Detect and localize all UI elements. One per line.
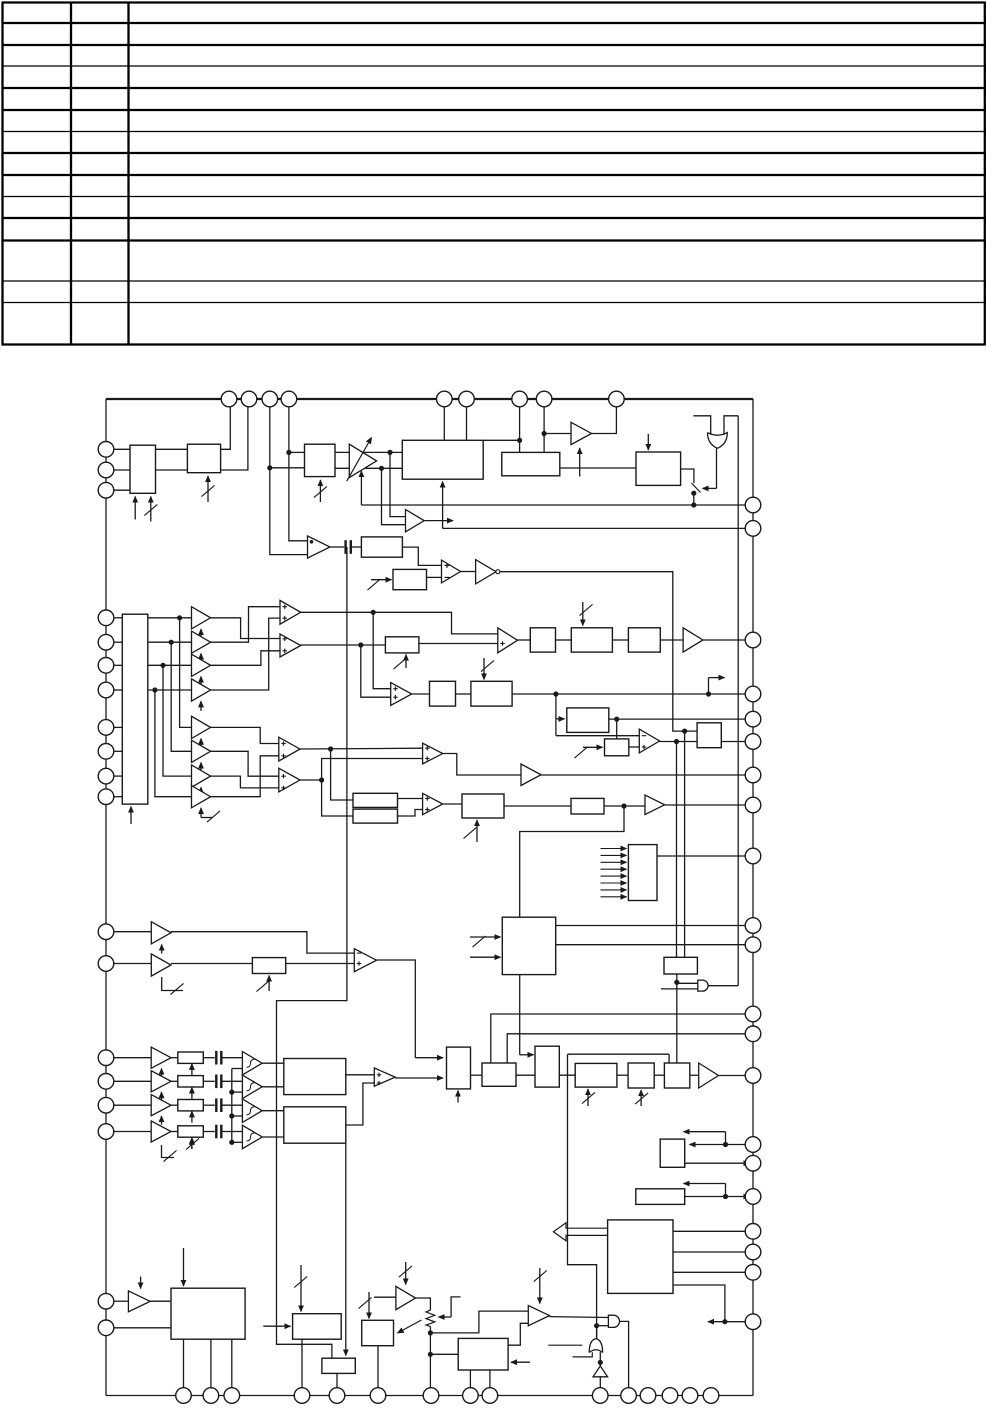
right pin 21 (745, 1314, 761, 1330)
wire cap to limiter L3 (223, 1104, 243, 1106)
junction on U4 output lower (379, 466, 384, 471)
minus mark K7 (642, 735, 647, 737)
block U12 (361, 537, 402, 557)
stub arrow above U29 (725, 1132, 727, 1145)
control arrow into M1 bottom (457, 1091, 459, 1103)
wire U3 to big block U5 upper (335, 451, 402, 453)
comparator K8 (423, 743, 443, 764)
buffer amp A7 (192, 765, 211, 787)
minus mark U14 (445, 576, 450, 578)
wire U28 out to K10 plus (286, 963, 355, 965)
plus marks S1 (377, 1074, 382, 1076)
wire left pin to buffer A12 (114, 931, 152, 933)
wire U8 to U10 (560, 467, 636, 469)
wire U1 to U2 upper (156, 448, 188, 450)
top pin 8 (536, 391, 552, 407)
wire U16 output ch4 to buffer (148, 689, 192, 691)
resistor block R1 (353, 793, 398, 807)
wire left pin to selector U16 input 4 (114, 689, 123, 691)
left pin 13 (98, 956, 114, 972)
block D1 (482, 1063, 516, 1086)
buffer A11 (645, 795, 665, 815)
power amp A15 (528, 1306, 549, 1326)
inverter U15 (476, 560, 496, 584)
summing amp S1 (374, 1068, 395, 1086)
stub wire G1 lower input (661, 988, 698, 990)
open bus arrow out of U31 (553, 1223, 607, 1241)
wire top pin 544 down into block U8 (543, 407, 545, 452)
gain arrow into U4 bottom (360, 471, 362, 505)
wire R2 out step to K9 lower (398, 810, 423, 817)
left pin 6 (98, 658, 114, 674)
table outer frame and grid (empty pin-function table) (2, 1, 986, 3)
right pin 14 (745, 1068, 761, 1084)
buffer A13 (151, 954, 171, 976)
potentiometer RV1 zigzag (426, 1310, 435, 1327)
wire RV1 bottom to bottom pin 431 (429, 1327, 431, 1396)
wire U31 out down to net1322 (673, 1285, 725, 1322)
wire A12 out step down to comparator K10 minus (171, 932, 354, 953)
wire A2 out step up to K1 upper input (211, 607, 280, 643)
wire bias vertical from cap node down (277, 547, 347, 1358)
wire R1 out to comparator K9 (398, 798, 423, 800)
left pin 19 (98, 1320, 114, 1336)
comparator U14 (442, 560, 461, 583)
plus mark K10 (357, 963, 362, 965)
U6 output stub arrow (424, 520, 453, 522)
capacitor C4 plate2 (220, 1098, 222, 1112)
wire F2 to F3 (612, 639, 628, 641)
clock stub left of G3 (548, 1344, 582, 1346)
comparator K6 (391, 683, 412, 706)
wire left pin 1301 to buffer A18 (114, 1300, 129, 1302)
wire top pin 289 vertical to comparator U7 upper input (289, 407, 308, 541)
wire left pin 3 to block U1 (114, 489, 130, 491)
wire D4 to D5 (654, 1074, 664, 1076)
control arrow into U1 bottom (134, 497, 136, 520)
wire U19 out to right pin 694 (512, 693, 753, 695)
system control block U31 (608, 1220, 673, 1294)
junction net1322 (722, 1319, 727, 1324)
wire ch2 tap down to buffer 6 (171, 642, 191, 751)
block U10 (636, 452, 681, 485)
wire bypass into D5 top (668, 1054, 670, 1063)
trim block T4 (178, 1126, 204, 1137)
left pin 8 (98, 720, 114, 736)
wire D1 top to right pin 1013 (491, 1014, 753, 1063)
decoder input arrow 7 (601, 889, 627, 891)
junction K2 out (358, 642, 363, 647)
decoder input arrow 5 (601, 875, 627, 877)
wire right pin 1144 arrow into U29 (690, 1144, 754, 1146)
wire left pin 1328 to U36 (114, 1327, 171, 1329)
right pin 15 (745, 1137, 761, 1153)
wire U29 out arrow to right pin 1163 (685, 1162, 750, 1164)
wire cap to limiter L2 (223, 1080, 243, 1082)
wire U10 output to switch SW1 (681, 469, 694, 483)
wire K3 out to comparator K8 (300, 747, 423, 750)
decoder input arrow 4 (601, 868, 627, 870)
wire K9 out to block U23 (443, 803, 462, 805)
capacitor C2 plate1 (215, 1051, 217, 1065)
wire D2 to D3 (559, 1074, 575, 1076)
reference bus vertical for limiters (231, 1069, 233, 1143)
capacitor C3 plate2 (220, 1075, 222, 1089)
wire K10 out down to mute block M1 input arrow (377, 960, 416, 1058)
OR gate U11 output arrow to SW1 (716, 448, 718, 488)
wire U36 to bottom pin 211 (210, 1339, 212, 1395)
wire U17 out to K5 lower input (419, 643, 498, 645)
RV1 wiper arrow (439, 1316, 452, 1318)
plus marks K1 (283, 606, 288, 608)
block D5 (664, 1063, 689, 1088)
wire U27 out to right pin 856 (657, 855, 753, 857)
junction K4 out (319, 777, 324, 782)
wire pot tap to A15 upper input (430, 1311, 528, 1333)
junction on net694 at x708 (706, 691, 711, 696)
trim block T2 (178, 1076, 204, 1087)
wire top pin 444 into U5 (443, 407, 445, 440)
wire x556 across to comparator K7 minus input (556, 735, 639, 737)
wire left pin ch4 to amp B4 (114, 1131, 151, 1133)
comparator K7 (639, 729, 659, 753)
reference amp A17 (396, 1286, 416, 1309)
wire bypass vertical to lower logic (568, 1054, 597, 1338)
junction pin544 net (542, 431, 547, 436)
wire U2 out to top pin 249 (221, 407, 248, 470)
limiter L1 (242, 1052, 262, 1075)
wire net505 from VCA gain node to right pin (361, 504, 753, 506)
comparator K10 (354, 949, 376, 972)
wire U33 bottom to pin 378 (377, 1346, 379, 1396)
gain arrow into B1 (161, 1069, 163, 1078)
left pin 7 (98, 682, 114, 698)
left pin 1 (98, 442, 114, 458)
decoder block U27 (628, 845, 657, 901)
wire U11 left input stub (693, 416, 710, 435)
wire K7 out to block U22 (660, 741, 698, 743)
wire L3 out (262, 1110, 284, 1112)
IC outline top edge (106, 398, 753, 400)
IC outline left edge (105, 399, 107, 1396)
buffer A18 (128, 1291, 150, 1312)
wire ch4 tap down to buffer 8 (155, 690, 192, 797)
limiter L4 (242, 1125, 262, 1148)
arrow with slash down into U34 (300, 1265, 302, 1312)
amp B3 (151, 1095, 171, 1116)
wire U18 to U19 (456, 693, 471, 695)
left pin 9 (98, 744, 114, 760)
right pin 16 (745, 1155, 761, 1171)
wire G3 right leg down to buffer A16 (599, 1352, 601, 1366)
wire left pin ch2 to amp B2 (114, 1080, 151, 1082)
plus mark U14 (445, 564, 450, 566)
wire left pin to buffer A13 (114, 963, 152, 965)
wire U26 out to right pin 925 (556, 925, 753, 927)
wire B3 to trim T3 (171, 1104, 178, 1106)
control arrow with slash into U3 bottom (319, 480, 321, 502)
wire K2 junction down to K6 lower input (361, 645, 391, 697)
junction RV1 net lower (428, 1352, 433, 1357)
gain arrow into T3 (191, 1111, 193, 1123)
wire T2 to cap C3 (203, 1080, 215, 1082)
bottom pin 2 (203, 1388, 219, 1404)
junction on pin289 net (286, 450, 291, 455)
left pin 3 (98, 482, 114, 498)
wire K5 to F1 (518, 639, 531, 641)
OR gate G3 facing up (589, 1339, 602, 1353)
buffer up-triangle A16 (593, 1366, 608, 1377)
junction K1 out (371, 610, 376, 615)
block U18 (430, 681, 456, 706)
left pin 12 (98, 924, 114, 940)
bottom pin 5 (329, 1388, 345, 1404)
right pin 18 (745, 1224, 761, 1240)
buffer amp A4 (192, 679, 211, 701)
oscillator block U36 (171, 1288, 245, 1339)
arrow into U34 left (263, 1325, 290, 1327)
wire left pin to selector U16 input 3 (114, 664, 123, 666)
wire net528 to right pin (443, 527, 753, 529)
left pin 15 (98, 1074, 114, 1090)
right pin 17 (745, 1189, 761, 1205)
arrow down into A18 (140, 1277, 142, 1289)
buffer A12 (151, 922, 171, 944)
wire A1 out step down to K2 upper input (211, 618, 280, 639)
bus tap to limiter L3 (232, 1115, 243, 1117)
bus tap to limiter L4 (232, 1141, 243, 1143)
junction below G3 (598, 1360, 603, 1365)
wire junction down along x556 (555, 694, 557, 736)
block U20 (567, 708, 609, 733)
wire U16 output ch3 to buffer (148, 664, 192, 666)
top pin 9 (609, 391, 625, 407)
gain arrow slash under D4 (640, 1090, 642, 1106)
wire U21 out to K7 plus input (629, 746, 640, 748)
capacitor C2 plate2 (220, 1051, 222, 1065)
bus tap to limiter L1 (232, 1068, 243, 1070)
gain arrow into A5 (200, 739, 202, 749)
bottom pin 9 (482, 1388, 498, 1404)
block U23 (462, 794, 504, 818)
wire L2 out (262, 1086, 284, 1088)
block U24 (571, 798, 604, 814)
bottom pin 7 (423, 1388, 439, 1404)
wire left pin to selector U16 input 7 (114, 775, 123, 777)
arrow with slash down into A17 (405, 1262, 407, 1285)
gain arrow slash under U23 (476, 820, 478, 842)
top pin 4 (281, 391, 297, 407)
wire X2 out step up to S1 (346, 1083, 375, 1125)
wire U35 bottom to pin 337 (336, 1373, 338, 1395)
gain arrow into A2 (200, 653, 202, 663)
wire A15 out to AND gate G2 (550, 1316, 609, 1319)
wire K7 junction down to block U25 top (676, 742, 678, 958)
left pin 11 (98, 789, 114, 805)
buffer U9 triangle (571, 422, 592, 444)
wire U25 bottom to AND gate G1 (676, 974, 678, 1063)
right pin 10 (745, 918, 761, 934)
wire U13 out to U14 minus input (427, 576, 442, 578)
stub arrow above U30 (725, 1184, 727, 1197)
arrow into U26 lower (470, 956, 501, 958)
wire U31 out to right pin 1252 (673, 1251, 753, 1253)
block U33 (362, 1320, 394, 1345)
junction G2 lower input net (594, 1323, 599, 1328)
plus marks K6 (393, 688, 398, 690)
wire junction down-left into big block U26 top (520, 806, 624, 917)
wire A9 out to right pin 640 (703, 639, 753, 641)
bottom pin 13 (662, 1388, 678, 1404)
wire K8 out step down to buffer A10 (443, 754, 521, 776)
right pin 2 (745, 521, 761, 537)
arrow with slash into U21 left (583, 746, 603, 748)
variable arrow across U4 (347, 438, 372, 482)
RV1 wiper stub up (451, 1297, 460, 1317)
right pin 12 (745, 1006, 761, 1022)
gain arrow slash-L under B4 (162, 1145, 175, 1158)
wire right pin 1322 with arrow left (708, 1321, 753, 1323)
wire top pin 519 down into block U8 (519, 407, 521, 452)
bottom pin 15 (703, 1388, 719, 1404)
wire A4 out long step up to K1 lower input (211, 618, 280, 690)
bottom pin 3 (224, 1388, 240, 1404)
resistor block R2 (353, 809, 398, 823)
junction on net719 (614, 717, 619, 722)
wire SW1 junction link (693, 493, 695, 505)
trim block T3 (178, 1100, 204, 1111)
wire X1 out to summing amp S1 (346, 1074, 375, 1076)
top pin 1 (221, 391, 237, 407)
amp B4 (151, 1121, 171, 1142)
wire U7 out to cap C1 (330, 546, 344, 548)
wire K3 junction down to resistor block R1 (331, 749, 353, 800)
gain arrow into B3 (161, 1116, 163, 1125)
capacitor C1 plate1 (344, 540, 346, 554)
gain arrow into A8 with slash mark (201, 817, 213, 819)
right pin 1 (745, 497, 761, 513)
right pin 13 (745, 1026, 761, 1042)
comparator K5 (498, 628, 518, 653)
wire U26 bottom out down then arrow into DAC block D2 (519, 975, 521, 1055)
comparator K1 (280, 600, 301, 624)
decoder input arrow 2 (601, 854, 627, 856)
comparator K3 (279, 737, 300, 761)
left pin 10 (98, 768, 114, 784)
big block U26 (502, 917, 555, 974)
gain arrow into A3 (200, 677, 202, 687)
capacitor C5 plate2 (220, 1125, 222, 1139)
decoder input arrow 8 (601, 896, 627, 898)
plus marks K8 (425, 747, 430, 749)
left pin 16 (98, 1097, 114, 1113)
block U28 (252, 958, 285, 974)
block U13 (393, 569, 427, 589)
control arrow into U16 bottom (130, 807, 132, 825)
capacitor C5 plate1 (215, 1125, 217, 1139)
wire D1 to D2 (516, 1074, 535, 1076)
wire left pin to selector U16 input 8 (114, 796, 123, 798)
wire A18 to oscillator block U36 (150, 1300, 171, 1302)
gain arrow into B2 (161, 1092, 163, 1101)
limiter L3 (242, 1099, 262, 1122)
right pin 4 (745, 686, 761, 702)
junction ch3 tap (160, 663, 165, 668)
plus marks K2 (283, 638, 288, 640)
junction ch2 tap (169, 640, 174, 645)
bottom pin 12 (640, 1388, 656, 1404)
buffer amp A6 (192, 740, 211, 762)
wire left pin ch3 to amp B3 (114, 1104, 151, 1106)
block U30 (636, 1189, 685, 1205)
wire A16 down to bottom pin 601 (599, 1377, 601, 1396)
wire cap to limiter L1 (223, 1057, 243, 1059)
bottom pin 1 (176, 1388, 192, 1404)
right pin 11 (745, 937, 761, 953)
wire M1 to D1 (471, 1074, 483, 1076)
top pin 6 (459, 391, 475, 407)
junction on U4 output upper (387, 450, 392, 455)
bus tap to limiter L2 (232, 1091, 243, 1093)
trim block T1 (178, 1052, 204, 1063)
big block U5 signal processor (402, 440, 483, 479)
output buffer A14 (699, 1063, 719, 1088)
AND gate G2 (608, 1315, 619, 1327)
inverter U15 output bubble (496, 570, 500, 574)
gain arrow into A7 (200, 787, 202, 797)
wire U30 out arrow to right pin 1196 (685, 1196, 750, 1198)
wire U24 out to buffer A11 (604, 805, 645, 807)
wire tap to buffer U9 input (544, 433, 571, 435)
right pin 6 (745, 734, 761, 750)
gain arrow into A1 (200, 629, 202, 639)
right pin 20 (745, 1265, 761, 1281)
wire U2 out to top pin 229 (221, 407, 231, 449)
decoder input arrow 1 (601, 848, 627, 850)
wire K4 step to K8 lower input (322, 759, 423, 781)
left pin 4 (98, 610, 114, 626)
plus marks K4 (281, 775, 286, 777)
wire U9 output to top pin 616 (592, 407, 617, 434)
mixer block X2 (284, 1107, 346, 1143)
wire cap to limiter L4 (223, 1131, 243, 1133)
capacitor C4 plate1 (215, 1098, 217, 1112)
IC outline bottom edge (106, 1395, 753, 1397)
wire G1 output to inner bus (708, 985, 738, 987)
block U34 (293, 1314, 342, 1340)
wire A7 out step down to K4 lower input (211, 776, 279, 788)
right pin 3 (745, 632, 761, 648)
OR gate U11 (708, 433, 728, 449)
wire junction to G1 upper input (677, 982, 698, 984)
wire U36 to bottom pin 232 (231, 1339, 233, 1395)
wire D1 top to right pin 1034 (507, 1034, 753, 1063)
wire left pin to selector U16 input 1 (114, 617, 123, 619)
arrow with slash down into U19 (483, 658, 485, 680)
wire U11 right input stub to inner bus (724, 416, 738, 435)
plus mark K7 (642, 746, 647, 748)
buffer A9 (683, 628, 703, 652)
wire top pin 466 into U5 (466, 407, 468, 440)
wire U26 out to right pin 945 (556, 944, 753, 946)
junction net1196 (723, 1194, 728, 1199)
wire ch1 tap down to buffer 5 (180, 618, 192, 728)
wire U22 out to right pin 742 (721, 741, 753, 743)
arrow with slash down into F2 (582, 602, 584, 626)
right pin 5 (745, 711, 761, 727)
right pin 19 (745, 1244, 761, 1260)
gain arrow slash under U28 (268, 976, 270, 992)
